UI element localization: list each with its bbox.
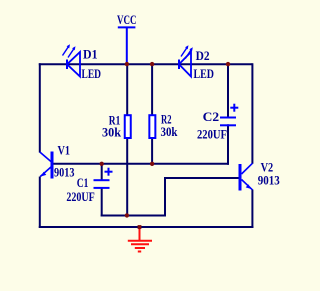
wire: R1 bottom lead down to V2 base net (126, 139, 128, 217)
svg-text:C2: C2 (203, 110, 220, 124)
junction dot: C1 top at V1 base net (100, 162, 104, 166)
wire: right vertical from V2 emitter to ground rail (251, 190, 253, 229)
svg-text:C1: C1 (77, 176, 89, 190)
wire: V1 base horizontal net (52, 163, 229, 165)
svg-text:30k: 30k (102, 126, 121, 140)
wire: R2 top lead from rail (151, 63, 153, 115)
ground symbol (128, 227, 152, 252)
transistor V1 (40, 152, 52, 179)
wire: left vertical from rail to V1 collector (39, 63, 41, 152)
wire: C1 top lead from V1 base net (101, 163, 103, 180)
wire: riser from V1 base net up to C2 bottom plate (227, 124, 229, 165)
svg-text:220UF: 220UF (66, 190, 95, 204)
resistor R1 (125, 115, 131, 138)
wire: R1 top lead from rail (126, 63, 128, 115)
wire: left vertical from V1 emitter to ground rail (39, 177, 41, 229)
wire: riser from bottom net up to V2 base wire (164, 177, 166, 217)
svg-text:9013: 9013 (54, 166, 75, 180)
svg-text:LED: LED (82, 67, 102, 81)
junction dot: C2/D2 at rail (226, 62, 230, 66)
svg-text:VCC: VCC (117, 13, 137, 27)
junction dot: ground symbol at ground rail (138, 225, 142, 229)
LED D1 (63, 44, 81, 76)
wire: right vertical from rail to V2 collector (251, 63, 253, 164)
wire: ground rail (39, 226, 254, 228)
capacitor C1 (94, 168, 113, 188)
wire: C1 bottom lead (101, 188, 103, 217)
wire: top VCC rail (39, 63, 253, 65)
svg-text:9013: 9013 (258, 174, 280, 188)
resistor R2 (149, 115, 155, 138)
wire: V2 base horizontal wire (164, 177, 239, 179)
wire: R2 bottom lead to V1 base net (151, 139, 153, 165)
svg-text:30k: 30k (161, 125, 178, 139)
junction dot: R1 bottom at bottom net (125, 213, 129, 217)
wire: bottom horizontal net C1/R1/V2 base (101, 215, 166, 217)
svg-text:V1: V1 (58, 144, 71, 158)
transistor V2 (240, 163, 252, 190)
svg-text:D1: D1 (83, 48, 98, 62)
svg-text:LED: LED (194, 67, 215, 81)
wire: C2 top lead from rail (227, 63, 229, 117)
svg-text:V2: V2 (261, 161, 274, 175)
junction dot: R2 bottom at V1 base net (150, 162, 154, 166)
junction dot: VCC/R1 at rail (125, 62, 129, 66)
LED D2 (179, 45, 193, 76)
svg-text:220UF: 220UF (197, 128, 227, 142)
svg-text:D2: D2 (196, 49, 210, 63)
capacitor C2 (220, 104, 238, 126)
junction dot: R2 at rail (150, 62, 154, 66)
power VCC symbol (118, 27, 136, 63)
